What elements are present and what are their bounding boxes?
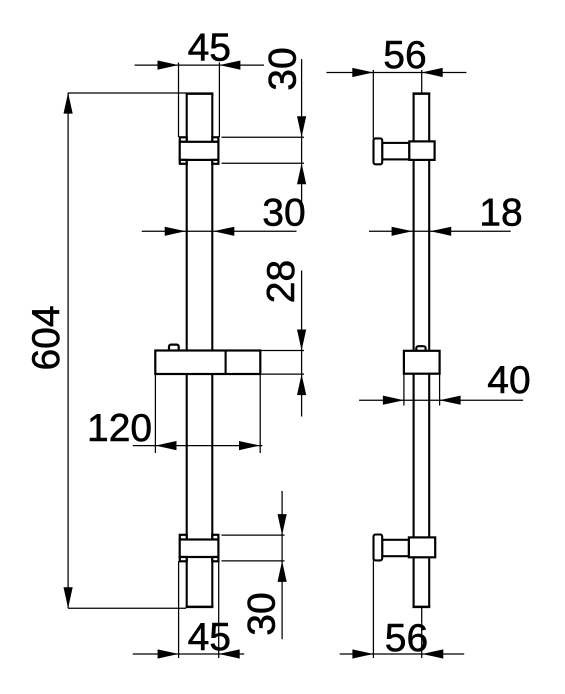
arrowhead left of 56 top <box>352 68 373 77</box>
svg-text:30: 30 <box>261 47 304 90</box>
dimension 18 bar depth <box>369 191 523 236</box>
dimension 604 overall length <box>25 93 186 609</box>
svg-text:604: 604 <box>25 305 68 370</box>
side view slider <box>404 346 440 373</box>
arrowhead left of 40 slider depth <box>383 396 404 405</box>
arrowhead upper of 30 bracket height <box>297 116 306 137</box>
arrowhead right of 120 slider width <box>239 441 260 450</box>
svg-text:120: 120 <box>87 407 152 450</box>
front view slider <box>155 345 260 374</box>
svg-text:40: 40 <box>487 359 530 402</box>
dimension 56 bottom <box>340 560 465 659</box>
arrowhead right of 18 bar depth <box>430 227 451 236</box>
dimension 45 bottom <box>133 561 245 659</box>
dimension 56 top <box>327 34 467 139</box>
side view bottom wall bracket <box>374 535 436 561</box>
side view bar <box>413 94 431 607</box>
dimension 28 slider height <box>260 260 306 417</box>
arrowhead left of 45 top <box>158 61 179 70</box>
arrowhead lower of 28 slider height <box>297 374 306 395</box>
svg-text:45: 45 <box>188 616 231 659</box>
arrowhead left of 18 bar depth <box>392 227 413 236</box>
dimension 30 top (bracket height) <box>222 47 307 207</box>
svg-text:30: 30 <box>262 191 305 234</box>
side view top wall bracket <box>374 138 435 164</box>
front view bar <box>186 94 214 607</box>
front view top wall bracket <box>180 137 219 163</box>
arrowhead left of 120 slider width <box>156 441 177 450</box>
dimension 120 slider width <box>87 374 262 453</box>
svg-text:30: 30 <box>241 592 284 635</box>
arrowhead lower of 30 bracket height <box>297 163 306 184</box>
svg-text:45: 45 <box>188 27 231 70</box>
dimension 30 bottom (bracket height) <box>222 491 287 639</box>
svg-text:18: 18 <box>479 191 522 234</box>
arrowhead right of 45 bottom <box>219 649 240 658</box>
dimension 40 slider depth <box>359 359 531 406</box>
arrowhead right of 30 bar width <box>213 227 234 236</box>
svg-text:28: 28 <box>260 260 303 303</box>
arrowhead left of 45 bottom <box>158 649 179 658</box>
arrowhead upper of 30 bottom bracket height <box>278 514 287 535</box>
arrowhead upper of 28 slider height <box>297 330 306 351</box>
dimension 45 top <box>135 27 264 138</box>
arrowhead left of 30 bar width <box>165 227 186 236</box>
arrowhead right of 56 bottom <box>422 649 443 658</box>
dimension 30 bar width <box>142 191 306 236</box>
arrowhead left of 56 bottom <box>352 649 373 658</box>
arrowhead top of 604 overall <box>64 93 73 114</box>
svg-text:56: 56 <box>385 617 428 660</box>
front view bottom wall bracket <box>180 535 219 562</box>
arrowhead right of 45 top <box>219 61 240 70</box>
arrowhead lower of 30 bottom bracket height <box>278 561 287 582</box>
arrowhead right of 40 slider depth <box>440 396 461 405</box>
arrowhead bottom of 604 overall <box>64 587 73 608</box>
arrowhead right of 56 top <box>422 68 443 77</box>
svg-text:56: 56 <box>383 34 426 77</box>
